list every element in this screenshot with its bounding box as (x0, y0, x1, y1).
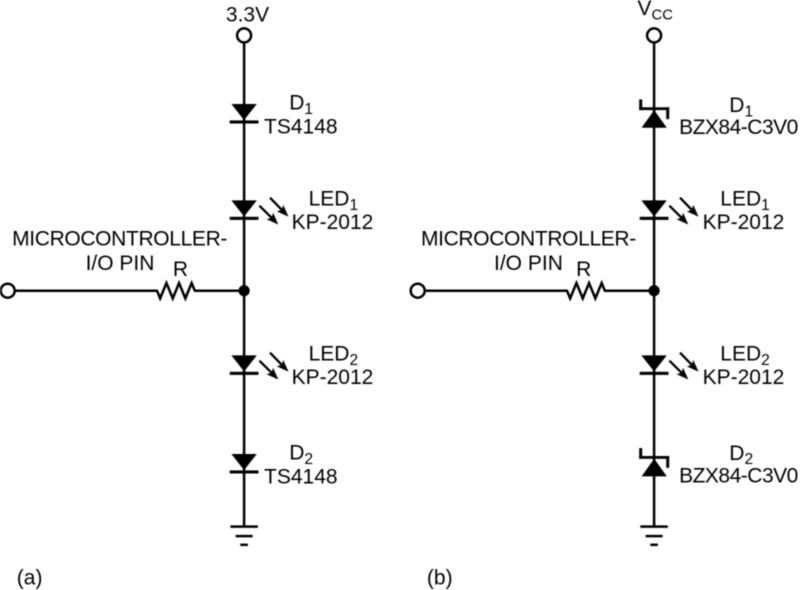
svg-text:(a): (a) (17, 567, 43, 590)
svg-text:KP-2012: KP-2012 (292, 366, 374, 389)
svg-text:I/O PIN: I/O PIN (494, 252, 563, 275)
svg-text:I/O PIN: I/O PIN (86, 252, 155, 275)
svg-text:MICROCONTROLLER-: MICROCONTROLLER- (12, 228, 227, 251)
svg-text:R: R (173, 258, 188, 281)
svg-text:3.3V: 3.3V (226, 3, 269, 26)
svg-text:KP-2012: KP-2012 (292, 211, 374, 234)
svg-text:TS4148: TS4148 (264, 115, 338, 138)
svg-text:BZX84-C3V0: BZX84-C3V0 (679, 116, 798, 139)
svg-text:KP-2012: KP-2012 (703, 366, 785, 389)
svg-text:KP-2012: KP-2012 (703, 211, 785, 234)
svg-text:BZX84-C3V0: BZX84-C3V0 (679, 464, 798, 487)
svg-text:TS4148: TS4148 (264, 465, 338, 488)
svg-text:(b): (b) (427, 567, 453, 590)
svg-text:R: R (576, 258, 591, 281)
svg-text:MICROCONTROLLER-: MICROCONTROLLER- (421, 228, 636, 251)
